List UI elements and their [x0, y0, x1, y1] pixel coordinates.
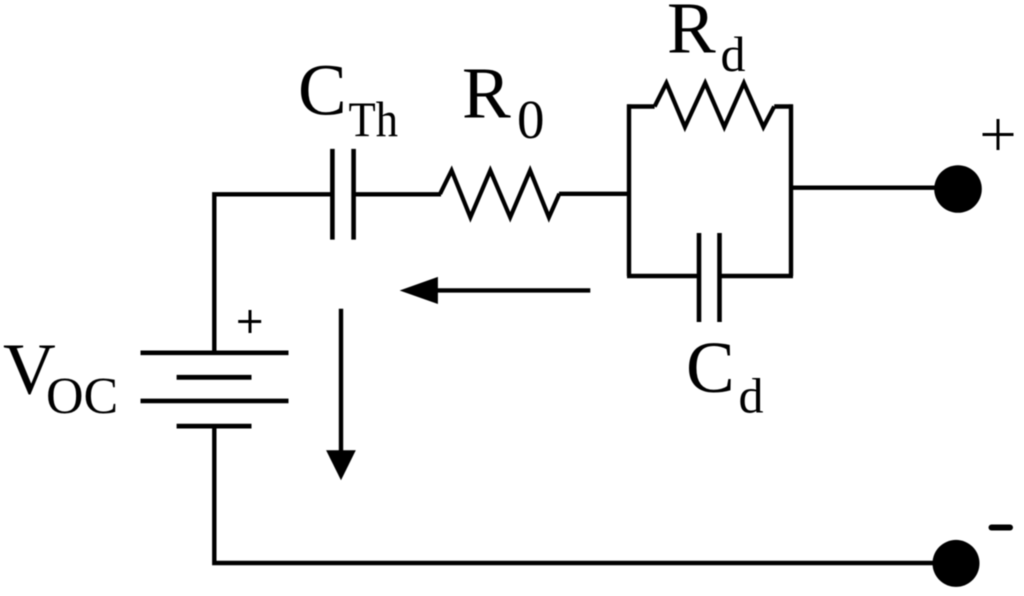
label C_d — [686, 327, 764, 424]
label - (output) — [992, 525, 1011, 531]
battery V_OC — [141, 353, 289, 426]
label R_0 — [462, 53, 545, 151]
svg-text:0: 0 — [517, 89, 545, 150]
label V_OC — [3, 329, 118, 426]
svg-text:C: C — [686, 327, 735, 408]
node: positive output terminal dot — [934, 165, 982, 213]
label + (output) — [983, 119, 1014, 150]
wire: top rail from battery positive node to C_Th left plate — [214, 194, 332, 353]
resistor R_d — [655, 83, 775, 127]
label + (battery) — [238, 310, 261, 333]
label C_Th — [298, 50, 398, 147]
svg-text:R: R — [667, 0, 716, 69]
wire: C_Th right plate to R_0 — [354, 192, 441, 196]
current arrow (vertical, pointing down) — [326, 309, 356, 481]
svg-text:d: d — [721, 26, 746, 82]
label R_d — [667, 0, 746, 82]
current arrow (horizontal, pointing left) — [400, 277, 591, 304]
svg-text:OC: OC — [46, 368, 118, 425]
svg-text:d: d — [739, 368, 764, 424]
wire: R_0 to parallel box left edge — [559, 192, 631, 196]
svg-text:Th: Th — [349, 91, 399, 147]
capacitor C_Th — [332, 149, 353, 240]
resistor R_0 — [440, 171, 559, 218]
wire: battery negative terminal to bottom rail and negative output — [214, 426, 945, 563]
wire: box right edge to positive terminal — [791, 185, 945, 189]
capacitor C_d — [699, 233, 720, 322]
svg-text:C: C — [298, 50, 347, 131]
svg-text:R: R — [462, 53, 511, 134]
node: negative output terminal dot — [933, 540, 980, 587]
node: parallel RC box frame — [627, 104, 793, 276]
